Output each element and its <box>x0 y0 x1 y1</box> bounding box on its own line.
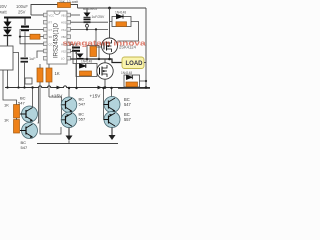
svg-text:557: 557 <box>79 116 86 121</box>
arrow on rail left <box>57 86 62 90</box>
svg-text:LO: LO <box>61 57 64 61</box>
output node wire <box>71 59 123 63</box>
svg-text:557: 557 <box>124 117 132 122</box>
wire VS1 row <box>71 28 109 30</box>
svg-text:HO1: HO1 <box>61 21 67 25</box>
svg-text:20K, 10-watt: 20K, 10-watt <box>59 0 78 4</box>
wire gate FET1 <box>96 29 102 47</box>
svg-text:swagatam innova: swagatam innova <box>63 39 147 48</box>
transistor Q5 BC547 <box>104 97 120 113</box>
svg-text:watt: watt <box>0 10 8 15</box>
pin labels <box>49 14 67 61</box>
wire vcc rail <box>31 5 78 16</box>
pins right <box>67 13 71 60</box>
svg-text:1K: 1K <box>4 118 9 123</box>
node rail-drain <box>108 7 111 10</box>
svg-text:LOAD: LOAD <box>126 61 144 67</box>
mosfet Q1 2SK4124 <box>109 8 111 38</box>
svg-text:1N4148: 1N4148 <box>81 60 92 64</box>
resistor R3 1K <box>37 68 43 82</box>
svg-text:1K: 1K <box>4 103 9 108</box>
wire rail thick right <box>118 87 150 89</box>
svg-text:VS1: VS1 <box>61 28 66 32</box>
ground rail with hops <box>5 86 150 88</box>
resistor R4 1K <box>46 68 52 82</box>
svg-text:100uF: 100uF <box>16 4 28 9</box>
capacitor C3 1uF/25V <box>84 19 91 21</box>
wire RT/CT loop <box>20 29 44 43</box>
svg-text:220V: 220V <box>0 4 7 9</box>
mosfet Q2 <box>104 59 106 63</box>
wires left <box>3 70 17 105</box>
svg-text:547: 547 <box>21 145 28 150</box>
wire loop detour <box>25 78 32 84</box>
wire HO2 to GN2 <box>71 44 77 63</box>
diode D1 input <box>7 19 9 22</box>
svg-text:VB1: VB1 <box>61 14 66 18</box>
arrow on rail right <box>98 86 103 90</box>
pins left <box>44 13 48 60</box>
wire SD left <box>37 51 44 58</box>
svg-text:VCC: VCC <box>49 14 55 18</box>
transistor Q6 BC557 <box>104 112 120 128</box>
resistor R2 Rt <box>30 34 40 39</box>
svg-text:1uF: 1uF <box>29 57 36 61</box>
wire bootstrap top <box>71 14 81 16</box>
driver pair center: wires <box>49 97 62 120</box>
svg-text:CT: CT <box>49 28 53 32</box>
diode D3 BA159 <box>86 8 88 13</box>
wires up from Q7/Q8 <box>32 88 34 108</box>
svg-text:547: 547 <box>79 101 86 106</box>
transistor Q8 BC547 <box>22 123 38 139</box>
transistor Q3 BC547 <box>61 97 77 113</box>
svg-text:547: 547 <box>18 100 25 105</box>
arrow output right <box>111 128 113 136</box>
capacitor C1 100uF <box>24 18 26 25</box>
wire loop bottom center <box>40 112 61 134</box>
diode D4 <box>77 54 84 59</box>
svg-text:VS2: VS2 <box>61 50 66 54</box>
arrow output center <box>68 128 70 136</box>
LOAD block <box>122 57 144 69</box>
node rail junctions <box>6 86 8 88</box>
svg-text:SD: SD <box>49 35 53 39</box>
svg-text:IRS2453(1)D: IRS2453(1)D <box>54 22 60 58</box>
svg-text:1K: 1K <box>55 71 60 76</box>
svg-text:1N4148: 1N4148 <box>121 71 132 75</box>
battery box <box>0 46 13 70</box>
svg-text:+15V: +15V <box>90 94 102 99</box>
capacitor C2 Ct <box>21 58 29 60</box>
capacitor C4 bootstrap2 <box>75 43 77 46</box>
resistor R5 loop <box>87 46 99 60</box>
svg-text:1uF/25V: 1uF/25V <box>92 15 106 19</box>
wire top rail right <box>78 7 147 9</box>
svg-text:547: 547 <box>124 102 132 107</box>
right rail <box>145 8 147 88</box>
wire HO1 row <box>71 21 109 23</box>
wire thick top-left bus <box>4 17 31 19</box>
resistor R1 20K 10 watt <box>58 3 71 8</box>
transistor Q4 BC557 <box>61 112 77 128</box>
svg-text:CO: CO <box>49 42 53 46</box>
wire box to right <box>13 53 19 88</box>
IC U1 IRS2453(1)D <box>47 11 67 64</box>
svg-text:25V: 25V <box>18 10 26 15</box>
driver pair right: wires <box>111 88 113 97</box>
svg-text:RT: RT <box>49 21 53 25</box>
diode D2 zener <box>7 28 9 30</box>
svg-text:BA159/05: BA159/05 <box>83 7 97 11</box>
bottom bus <box>37 143 118 145</box>
wire IC to resistors <box>39 64 41 68</box>
